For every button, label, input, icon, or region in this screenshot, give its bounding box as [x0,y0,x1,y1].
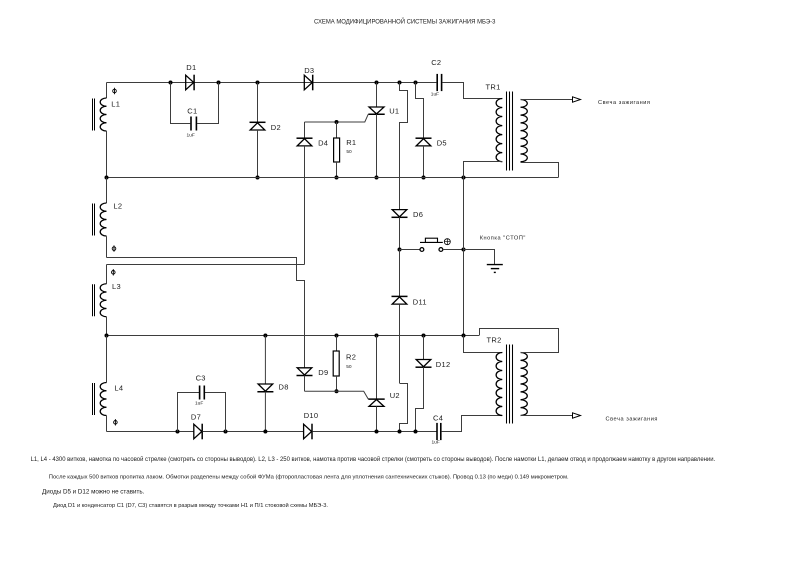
wire C4 to TR2 primary bottom [442,416,503,432]
svg-text:U1: U1 [389,107,399,116]
svg-text:Диод D1 и конденсатор С1 (D7,: Диод D1 и конденсатор С1 (D7, С3) ставят… [53,502,328,509]
phi mark L4 [114,419,118,425]
wire L1 top stub [106,83,108,99]
svg-text:D4: D4 [318,139,328,148]
diode D4 [297,138,329,148]
wire TR2 secondary output [521,415,573,417]
svg-text:L2: L2 [113,201,122,210]
node R2 bottom [335,389,339,393]
node R1 top [335,120,339,124]
svg-text:Кнопка "СТОП": Кнопка "СТОП" [480,236,526,242]
svg-text:D5: D5 [437,139,447,148]
svg-text:50: 50 [346,364,352,370]
wire mid vertical x463 [463,178,465,336]
capacitor C2 [431,58,442,98]
diode D2 [250,122,281,132]
capacitor C4 [432,414,444,446]
svg-text:L3: L3 [112,282,121,291]
svg-text:D1: D1 [186,63,196,72]
diode D10 [304,411,319,439]
wire D2 top [257,83,259,123]
diode D5 [416,138,447,148]
wire top rail [107,82,437,84]
wire to ground [464,250,495,265]
svg-text:Диоды D5 и D12 можно не стави: Диоды D5 и D12 можно не ставить. [42,489,145,496]
wire C2 to TR1 primary top [442,83,502,99]
svg-text:Свеча зажигания: Свеча зажигания [598,100,651,106]
node D1 right [217,81,221,85]
wire TR1 secondary return [521,163,559,178]
svg-text:1uF: 1uF [195,401,203,407]
wire L3 bottom stub [106,317,108,336]
svg-text:1uF: 1uF [432,440,440,446]
wire lower top rail [107,335,480,337]
wire mid rail [107,177,559,179]
transformer TR2 primary winding [496,353,502,416]
svg-text:Свеча зажигания: Свеча зажигания [606,416,659,422]
node D12 bottom [414,430,418,434]
wire TR2 secondary return [480,329,559,353]
diode D1 [186,63,197,90]
svg-text:TR1: TR1 [486,83,501,92]
node D12 top [422,334,426,338]
wire TR1 secondary output [521,99,573,101]
wire U1 gate [305,114,369,122]
capacitor C3 [195,374,206,407]
wire bottom rail c [312,431,436,433]
svg-text:1uF: 1uF [187,133,195,139]
wire button right lead [443,249,464,251]
wire U2 bottom [376,406,378,431]
wire U1 anode [376,83,378,108]
wire L2 bottom to D9 line [107,258,305,368]
node D1 left [169,81,173,85]
wire D12 top [423,336,425,360]
wire D12 bottom jog [416,367,424,431]
wire R1 top [336,122,338,138]
svg-text:D7: D7 [191,413,201,422]
wire mid vertical upper [399,178,401,210]
wire D11 to lower section [399,304,401,383]
svg-text:R1: R1 [346,138,356,147]
diode D7 [191,413,202,440]
phi mark L1 [113,88,117,94]
svg-text:C1: C1 [187,107,197,116]
svg-text:D2: D2 [271,123,281,132]
node button left [398,248,402,252]
wire C3 branch right [205,393,226,432]
phi mark L3 [112,269,116,275]
node rail2 left [105,334,109,338]
node R1 bottom [335,176,339,180]
wire button to D11 [399,250,401,297]
svg-text:D8: D8 [279,383,289,392]
node rail1 left [105,176,109,180]
wire TR2 primary top stub [464,336,503,353]
ground [487,265,503,273]
svg-text:После каждых 500 витков пропит: После каждых 500 витков пропитка лаком. … [49,474,569,481]
wire L3 top stub [106,265,108,284]
node C3 right [224,430,228,434]
resistor R1 [334,138,357,162]
node C3 left [176,430,180,434]
svg-text:D11: D11 [413,297,427,306]
diode D12 [416,360,451,370]
resistor R2 [333,351,356,376]
node R2 top [335,334,339,338]
wire D6 to button [399,217,401,249]
diode D9 [297,368,329,377]
inductor L3 [93,282,121,317]
wire button left lead [400,249,421,251]
inductor L2 [93,201,123,236]
node D2 bottom [256,176,260,180]
transformer TR1 secondary winding [521,100,528,162]
node D5 top [414,81,418,85]
wire L2 top stub [106,178,108,204]
svg-text:L1: L1 [111,100,120,109]
svg-text:R2: R2 [346,353,356,362]
diode D11 [392,296,427,306]
inductor L4 [93,383,124,416]
wire D8 bottom [264,392,266,432]
node jog bottom [398,430,402,434]
svg-text:D12: D12 [436,360,451,369]
wire bottom rail b [203,431,304,433]
svg-text:L1, L4 - 4300 витков, намотка: L1, L4 - 4300 витков, намотка по часовой… [31,456,716,463]
wire D4 to L3 wire [304,146,306,265]
node button right [462,248,466,252]
transformer TR1 core [507,92,513,171]
svg-text:L4: L4 [114,384,123,393]
arrow spark output 2 [573,413,581,418]
svg-text:C4: C4 [433,414,443,423]
svg-text:C2: C2 [431,58,441,67]
wire D9 to gate [304,376,306,392]
diode D6 [392,210,424,219]
wire U1 bypass jog [400,83,408,178]
wire L3 top run [107,264,305,266]
node U1 cathode [375,176,379,180]
svg-text:D9: D9 [318,368,328,377]
svg-text:TR2: TR2 [487,336,502,345]
node U2 cathode [375,430,379,434]
thyristor U2 [368,391,400,406]
wire U2 top [376,336,378,400]
node U1 anode [375,81,379,85]
thyristor U1 [368,107,399,116]
transformer TR1 primary winding [496,99,502,162]
node U2 anode [375,334,379,338]
node D2 top [256,81,260,85]
wire L2 bottom stub [106,236,108,257]
wire L4 bottom stub [106,416,108,432]
wire D2 bottom [257,130,259,178]
wire R2 bottom [336,376,338,391]
diode D3 [304,66,314,90]
svg-text:D10: D10 [304,411,319,420]
svg-text:СХЕМА МОДИФИЦИРОВАННОЙ СИСТЕМЫ: СХЕМА МОДИФИЦИРОВАННОЙ СИСТЕМЫ ЗАЖИГАНИЯ… [314,18,496,26]
wire L1 bottom stub [106,131,108,178]
arrow spark output 1 [573,97,581,102]
wire D8 top [264,336,266,385]
inductor L1 [93,98,121,131]
wire D4 top [304,122,306,138]
wire U2 bypass jog [400,384,408,432]
wire C1 branch left [171,83,191,124]
wire L4 top stub [106,336,108,383]
node D8 bottom [263,430,267,434]
wire C1 branch right [197,83,218,124]
wire R2 top [336,336,338,352]
wire U2 gate [305,391,369,399]
diode D8 [257,383,288,392]
transformer TR2 core [507,345,513,424]
wire C3 branch left [178,393,200,432]
svg-text:U2: U2 [390,391,400,400]
node rail1 TR1 [462,176,466,180]
svg-text:1uF: 1uF [431,92,439,98]
svg-text:D3: D3 [304,66,314,75]
node rail2 TR2 [462,334,466,338]
transformer TR2 secondary winding [521,353,528,416]
wire D5 bottom [423,146,425,178]
wire R1 bottom [336,162,338,178]
node jog top [398,81,402,85]
capacitor C1 [187,107,198,139]
svg-text:C3: C3 [196,374,206,383]
phi mark L2 [112,245,116,251]
wire D5 branch top [416,83,424,139]
wire U1 cathode [376,114,378,177]
svg-text:50: 50 [346,149,352,155]
wire TR1 primary bottom stub [464,162,503,178]
wire bottom rail a [107,431,194,433]
svg-text:D6: D6 [413,210,423,219]
pushbutton Knopka STOP [420,238,450,251]
node D8 top [263,334,267,338]
node D5 bottom [422,176,426,180]
